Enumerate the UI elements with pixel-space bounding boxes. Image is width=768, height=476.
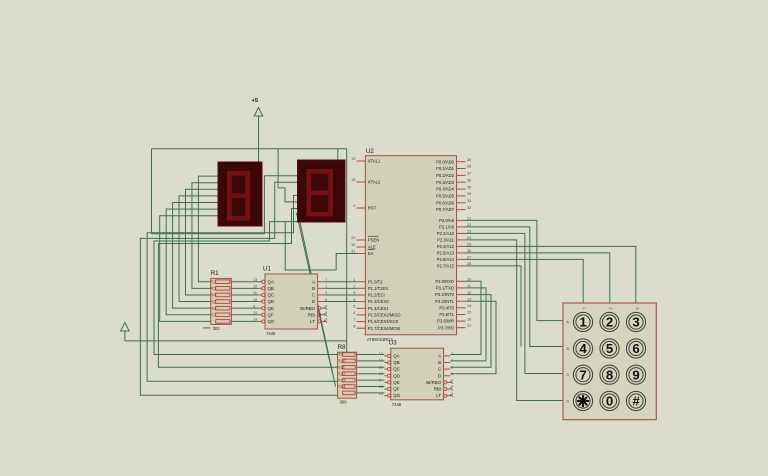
svg-text:C: C	[312, 293, 315, 298]
svg-text:AT89C51RC2: AT89C51RC2	[367, 337, 393, 342]
svg-text:QD: QD	[393, 373, 400, 378]
svg-text:7: 7	[451, 352, 453, 356]
svg-text:QC: QC	[268, 293, 275, 298]
svg-text:2: 2	[606, 315, 613, 330]
svg-text:12: 12	[253, 285, 257, 289]
svg-text:14: 14	[253, 318, 257, 322]
svg-text:QC: QC	[393, 367, 400, 372]
svg-text:A: A	[312, 279, 315, 284]
svg-text:P1.3/CEX0: P1.3/CEX0	[368, 299, 389, 304]
svg-text:P3.5/T1: P3.5/T1	[439, 312, 454, 317]
svg-text:P1.6/CEX3/SCK: P1.6/CEX3/SCK	[368, 319, 399, 324]
svg-text:R14: R14	[337, 384, 346, 389]
svg-text:P0.6/AD6: P0.6/AD6	[436, 200, 455, 205]
svg-text:D: D	[438, 373, 441, 378]
svg-text:P3.0/RXD: P3.0/RXD	[435, 279, 454, 284]
svg-text:37: 37	[467, 172, 471, 176]
svg-text:12: 12	[467, 291, 471, 295]
svg-text:22: 22	[467, 223, 471, 227]
svg-text:39: 39	[467, 158, 471, 162]
svg-text:36: 36	[467, 178, 471, 182]
svg-text:29: 29	[351, 236, 355, 240]
svg-text:QB: QB	[268, 286, 274, 291]
svg-text:P1.7/CEX4/MOSI: P1.7/CEX4/MOSI	[368, 326, 401, 331]
svg-text:33: 33	[467, 199, 471, 203]
svg-text:LT: LT	[436, 393, 441, 398]
svg-text:1: 1	[582, 308, 586, 310]
svg-text:R12: R12	[337, 371, 346, 376]
svg-text:P3.6/WR: P3.6/WR	[437, 319, 454, 324]
svg-text:13: 13	[467, 297, 471, 301]
svg-text:4: 4	[353, 298, 355, 302]
svg-text:P2.3/A11: P2.3/A11	[437, 238, 455, 243]
svg-text:5: 5	[451, 385, 453, 389]
svg-text:P3.4/T0: P3.4/T0	[439, 305, 454, 310]
svg-text:11: 11	[253, 291, 257, 295]
svg-text:6: 6	[353, 311, 355, 315]
svg-text:RST: RST	[368, 206, 377, 211]
svg-text:5: 5	[606, 341, 613, 356]
svg-text:P0.5/AD5: P0.5/AD5	[436, 194, 455, 199]
svg-text:11: 11	[379, 365, 383, 369]
svg-text:ALE: ALE	[368, 245, 376, 250]
svg-text:300: 300	[340, 400, 348, 405]
svg-text:5: 5	[325, 311, 327, 315]
svg-text:QF: QF	[393, 387, 399, 392]
svg-text:R7: R7	[210, 313, 216, 318]
svg-text:1: 1	[451, 359, 453, 363]
svg-text:+5: +5	[252, 98, 259, 104]
svg-text:9: 9	[253, 304, 255, 308]
svg-text:BI/RBO: BI/RBO	[426, 380, 441, 385]
svg-text:7: 7	[325, 278, 327, 282]
svg-text:38: 38	[467, 165, 471, 169]
svg-text:U1: U1	[263, 266, 271, 273]
svg-text:P0.1/AD1: P0.1/AD1	[436, 166, 455, 171]
svg-text:P1.1/T2EX: P1.1/T2EX	[368, 286, 388, 291]
svg-text:P2.1/A9: P2.1/A9	[439, 225, 455, 230]
svg-text:5: 5	[353, 305, 355, 309]
svg-text:R11: R11	[337, 365, 346, 370]
svg-text:14: 14	[467, 304, 471, 308]
svg-text:RBI: RBI	[308, 312, 315, 317]
svg-text:6: 6	[325, 298, 327, 302]
svg-text:4: 4	[325, 304, 327, 308]
svg-text:LT: LT	[310, 319, 315, 324]
svg-text:P0.3/AD3: P0.3/AD3	[436, 180, 455, 185]
svg-text:A: A	[438, 354, 441, 359]
svg-text:P3.7/RD: P3.7/RD	[438, 325, 454, 330]
svg-text:6: 6	[632, 341, 639, 356]
svg-text:P3.1/TXD: P3.1/TXD	[436, 286, 454, 291]
svg-text:10: 10	[253, 298, 257, 302]
svg-text:3: 3	[632, 315, 639, 330]
svg-text:8: 8	[606, 367, 613, 382]
svg-text:QA: QA	[268, 279, 274, 284]
svg-text:16: 16	[467, 317, 471, 321]
svg-text:7: 7	[353, 318, 355, 322]
svg-text:1: 1	[579, 315, 586, 330]
svg-text:BI/RBO: BI/RBO	[300, 306, 315, 311]
svg-text:P2.6/A14: P2.6/A14	[437, 257, 455, 262]
svg-text:35: 35	[467, 185, 471, 189]
svg-text:RBI: RBI	[434, 387, 441, 392]
svg-text:15: 15	[467, 311, 471, 315]
svg-text:P1.4/CEX1: P1.4/CEX1	[368, 306, 389, 311]
svg-text:R8: R8	[338, 344, 346, 351]
svg-text:U2: U2	[366, 148, 374, 155]
svg-text:XTAL2: XTAL2	[368, 180, 381, 185]
svg-text:18: 18	[351, 178, 355, 182]
svg-text:28: 28	[467, 262, 471, 266]
svg-text:P2.2/A10: P2.2/A10	[437, 231, 455, 236]
svg-text:R2: R2	[210, 279, 216, 284]
svg-text:P1.5/CEX2/MISO: P1.5/CEX2/MISO	[368, 313, 401, 318]
svg-text:R5: R5	[210, 299, 216, 304]
svg-text:23: 23	[467, 230, 471, 234]
svg-text:30: 30	[351, 243, 355, 247]
svg-text:R4: R4	[210, 293, 216, 298]
svg-text:#: #	[632, 394, 640, 409]
svg-text:1: 1	[325, 285, 327, 289]
svg-text:1: 1	[353, 278, 355, 282]
svg-text:13: 13	[253, 278, 257, 282]
svg-text:13: 13	[379, 352, 383, 356]
svg-text:8: 8	[353, 324, 355, 328]
svg-text:PSEN: PSEN	[368, 238, 379, 243]
svg-text:7448: 7448	[266, 331, 276, 336]
svg-text:9: 9	[353, 204, 355, 208]
svg-text:QD: QD	[268, 299, 275, 304]
svg-text:2: 2	[451, 365, 453, 369]
svg-text:6: 6	[451, 372, 453, 376]
svg-text:QA: QA	[393, 354, 399, 359]
svg-text:P2.0/A8: P2.0/A8	[439, 218, 455, 223]
svg-text:31: 31	[351, 250, 355, 254]
svg-text:10: 10	[467, 278, 471, 282]
svg-text:P0.7/AD7: P0.7/AD7	[436, 207, 455, 212]
svg-text:2: 2	[325, 291, 327, 295]
svg-text:QG: QG	[268, 319, 275, 324]
svg-text:4: 4	[579, 341, 587, 356]
svg-text:QG: QG	[393, 393, 400, 398]
svg-text:R6: R6	[210, 306, 216, 311]
svg-text:15: 15	[253, 311, 257, 315]
svg-text:P2.7/A15: P2.7/A15	[437, 264, 455, 269]
svg-text:25: 25	[467, 243, 471, 247]
svg-text:7: 7	[579, 367, 586, 382]
svg-text:9: 9	[632, 367, 639, 382]
svg-text:QE: QE	[268, 306, 274, 311]
svg-text:P0.0/AD0: P0.0/AD0	[436, 159, 455, 164]
svg-text:9: 9	[379, 379, 381, 383]
svg-text:19: 19	[351, 157, 355, 161]
svg-text:XTAL1: XTAL1	[368, 159, 381, 164]
svg-text:C: C	[567, 373, 570, 377]
svg-text:R13: R13	[337, 378, 346, 383]
svg-text:P1.0/T2: P1.0/T2	[368, 279, 383, 284]
svg-text:12: 12	[379, 359, 383, 363]
svg-text:C: C	[438, 367, 441, 372]
svg-text:P2.4/A12: P2.4/A12	[437, 244, 455, 249]
svg-text:D: D	[567, 399, 570, 403]
svg-text:34: 34	[467, 192, 471, 196]
svg-text:27: 27	[467, 256, 471, 260]
svg-text:2: 2	[609, 308, 613, 310]
svg-text:3: 3	[353, 291, 355, 295]
svg-text:B: B	[438, 360, 441, 365]
svg-text:P0.2/AD2: P0.2/AD2	[436, 173, 455, 178]
svg-text:B: B	[312, 286, 315, 291]
svg-text:21: 21	[467, 217, 471, 221]
svg-text:R1: R1	[211, 270, 219, 277]
svg-text:P0.4/AD4: P0.4/AD4	[436, 187, 455, 192]
svg-text:14: 14	[379, 392, 383, 396]
svg-text:3: 3	[325, 318, 327, 322]
svg-text:EA: EA	[368, 251, 374, 256]
svg-text:4: 4	[451, 379, 453, 383]
svg-text:P1.2/ECI: P1.2/ECI	[368, 293, 385, 298]
svg-text:300: 300	[213, 326, 221, 331]
svg-text:P3.2/INT0: P3.2/INT0	[435, 292, 455, 297]
svg-text:32: 32	[467, 206, 471, 210]
svg-text:15: 15	[379, 385, 383, 389]
svg-text:17: 17	[467, 324, 471, 328]
svg-text:P2.5/A13: P2.5/A13	[437, 251, 455, 256]
svg-text:2: 2	[353, 285, 355, 289]
svg-text:10: 10	[379, 372, 383, 376]
svg-text:26: 26	[467, 249, 471, 253]
svg-text:R3: R3	[210, 286, 216, 291]
svg-text:3: 3	[451, 392, 453, 396]
svg-text:R9: R9	[337, 352, 343, 357]
svg-text:7448: 7448	[392, 402, 402, 407]
svg-text:D: D	[312, 299, 315, 304]
svg-text:3: 3	[635, 308, 639, 310]
svg-text:P3.3/INT1: P3.3/INT1	[435, 299, 455, 304]
svg-text:QF: QF	[268, 312, 274, 317]
svg-text:R10: R10	[337, 359, 346, 364]
svg-text:24: 24	[467, 236, 471, 240]
svg-text:11: 11	[467, 284, 471, 288]
svg-text:QB: QB	[393, 360, 399, 365]
svg-text:QE: QE	[393, 380, 399, 385]
svg-text:0: 0	[606, 394, 613, 409]
